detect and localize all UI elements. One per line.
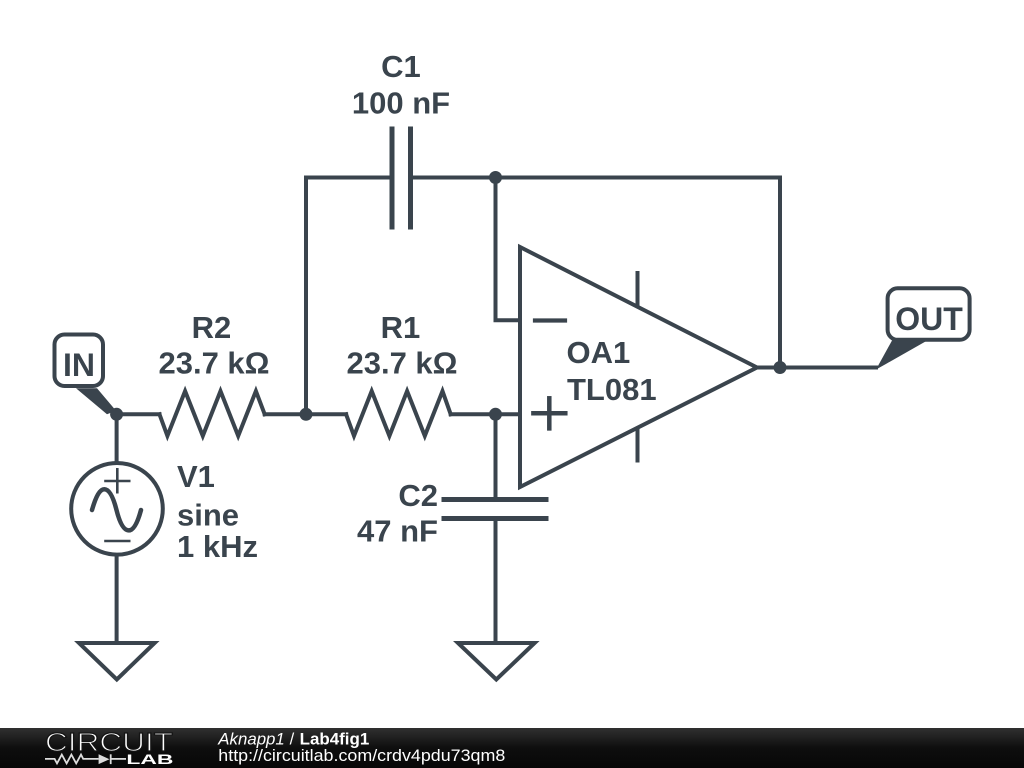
svg-text:OA1: OA1 [567,335,631,370]
V1 sine wave [92,489,141,530]
capacitor C1 [392,129,411,227]
svg-text:C1: C1 [381,49,421,84]
wire: non-inverting node down to C2 [494,414,498,499]
op-amp plus sign [533,398,565,428]
svg-text:sine: sine [177,498,239,533]
svg-text:LAB: LAB [126,752,173,767]
op-amp power stub bottom [636,430,640,461]
wire: op-amp output to OUT flag [757,366,876,370]
svg-text:100 nF: 100 nF [352,86,450,121]
op-amp OA1 triangle [520,247,757,487]
wire: left feedback vertical (node between R2,R1 up to C1) [304,178,308,415]
op-amp power stub top [636,273,640,305]
svg-text:/: / [290,731,295,749]
voltage source V1 circle [71,463,163,555]
svg-text:R2: R2 [192,310,232,345]
wire: R2 to mid junction [265,412,346,416]
node dot: top C1 junction [489,171,502,184]
resistor R1 [346,391,451,436]
svg-text:TL081: TL081 [567,372,657,407]
node dot: R2/R1 junction [300,408,313,421]
svg-text:R1: R1 [381,310,421,345]
V1 plus sign [106,469,130,492]
svg-text:Aknapp1: Aknapp1 [217,731,285,749]
IN flag pointer [76,388,116,414]
wire: top feedback horizontal right segment [411,176,781,180]
svg-text:http://circuitlab.com/crdv4pdu: http://circuitlab.com/crdv4pdu73qm8 [218,747,505,765]
op-amp minus sign [535,318,565,322]
OUT flag box [888,288,970,340]
node dot: non-inverting node [489,408,502,421]
node dot: output node [774,361,787,374]
wire: right feedback vertical (C1 right to output node) [778,178,782,368]
wire: IN node to R2 [117,412,160,416]
svg-text:V1: V1 [177,459,215,494]
wire: top feedback horizontal left segment [306,176,392,180]
svg-text:OUT: OUT [895,301,963,337]
wire: C2 to ground [494,519,498,643]
wire: R1 to non-inverting node and op-amp [451,412,520,416]
svg-text:1 kHz: 1 kHz [177,529,258,564]
V1 minus sign [106,540,130,543]
svg-text:C2: C2 [398,478,438,513]
ground symbol (V1) [79,643,155,680]
svg-text:IN: IN [63,347,95,383]
svg-text:23.7 kΩ: 23.7 kΩ [158,346,269,381]
CircuitLab logo resistor-diode squiggle [45,754,126,764]
footer bar [0,728,1024,768]
svg-text:47 nF: 47 nF [357,514,438,549]
capacitor C2 [444,500,546,519]
wire: inverting input from top junction down and jog right [496,178,521,321]
node dot: IN node [110,408,123,421]
svg-text:23.7 kΩ: 23.7 kΩ [346,346,457,381]
resistor R2 [160,391,265,436]
wire: V1 to ground [115,556,119,643]
CircuitLab logo diode triangle [99,754,110,764]
svg-text:Lab4fig1: Lab4fig1 [300,731,370,749]
OUT flag pointer [876,341,926,370]
wire: IN node down to V1 [115,414,119,462]
ground symbol (C2) [458,643,535,680]
IN flag box [55,335,104,387]
